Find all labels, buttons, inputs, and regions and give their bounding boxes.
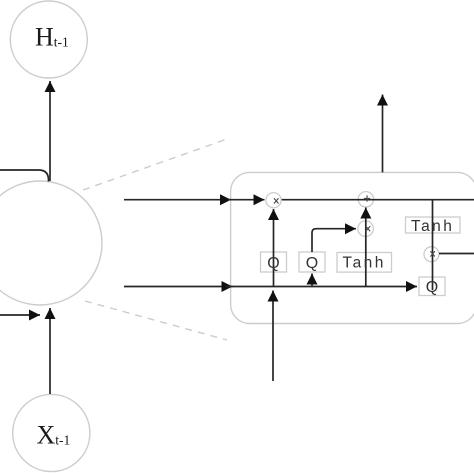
wire cell-state line out right xyxy=(282,199,474,201)
label x2 xyxy=(366,226,371,231)
LSTM cell circle A xyxy=(0,181,102,305)
gate box sigma Q1 xyxy=(261,252,287,272)
wire arrow cell-state into box (top) xyxy=(124,199,231,201)
wire arrow through Q1 up to multiply x1 xyxy=(273,209,275,287)
dashed zoom line top xyxy=(83,139,227,190)
node X(t-1) circle xyxy=(13,394,90,471)
wire recurrent elbow into cell xyxy=(0,170,49,182)
label plus xyxy=(364,195,370,201)
wire x3 output right xyxy=(439,253,474,255)
multiply junction circle x2 xyxy=(358,221,374,237)
svg-text:Q: Q xyxy=(306,255,318,272)
svg-text:Q: Q xyxy=(267,255,279,272)
multiply junction circle x1 xyxy=(266,193,281,208)
wire arrow up out of box xyxy=(382,95,384,173)
node H(t-1) circle xyxy=(10,1,87,78)
wire bottom line arrow into Q3 xyxy=(226,286,417,288)
plus junction circle xyxy=(358,192,373,207)
wire arrow input from below xyxy=(272,291,274,382)
svg-text:Tanh: Tanh xyxy=(411,218,454,235)
gate box sigma Q2 xyxy=(299,252,325,272)
wire arrow cell to H(t-1) xyxy=(49,81,51,181)
wire vertical through Tanh2, x3, Q3 xyxy=(432,200,434,291)
label x3 xyxy=(430,251,435,256)
svg-text:Tanh: Tanh xyxy=(343,255,386,272)
label x1 xyxy=(274,198,279,203)
LSTM detail rounded box xyxy=(231,172,474,323)
wire Q2 elbow arrow into multiply x2 xyxy=(312,229,356,252)
wire arrow X(t-1) to cell xyxy=(49,308,51,394)
box Tanh 1 xyxy=(337,253,392,273)
wire arrow up into Q2 xyxy=(311,274,313,287)
wire arrow to multiply x1 xyxy=(228,199,265,201)
svg-text:Q: Q xyxy=(426,279,438,296)
wire arrow hidden-state into box (bottom) xyxy=(124,286,233,288)
box Tanh 2 xyxy=(406,217,461,233)
dashed zoom line bottom xyxy=(85,301,227,340)
wire arrow through Tanh1 and x2 up to plus xyxy=(365,208,367,287)
multiply junction circle x3 (output) xyxy=(424,247,439,262)
wire arrow into cell from left xyxy=(0,314,40,316)
gate box sigma Q3 xyxy=(419,277,445,296)
